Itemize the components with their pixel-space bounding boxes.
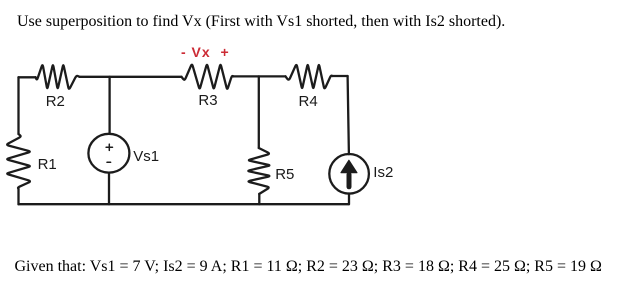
wire left vertical top (17, 77, 19, 134)
wire top segment 1 (19, 76, 36, 78)
given-values text (15, 258, 602, 276)
current source Is2 (329, 154, 369, 194)
node A wire down to Vs1 (108, 77, 110, 133)
label R5 (275, 166, 294, 183)
label Is2 (373, 164, 393, 181)
wire left vertical bottom (17, 189, 19, 204)
wire Vs1 bottom lead (108, 173, 110, 204)
red label - Vx + (181, 44, 230, 60)
label R4 (299, 93, 318, 110)
wire Is2 bottom lead (348, 193, 350, 204)
resistor R2 (36, 65, 80, 88)
Is2 arrow (347, 175, 352, 187)
node B wire down to R5 (258, 76, 260, 148)
label R3 (198, 92, 217, 109)
Vs1 minus sign (107, 161, 111, 163)
title text (17, 13, 505, 31)
resistor R4 (286, 65, 333, 88)
wire top segment 3 (234, 75, 286, 77)
resistor R3 (182, 65, 234, 89)
voltage source Vs1 (88, 134, 129, 173)
label R2 (46, 93, 65, 110)
label R1 (38, 156, 57, 173)
resistor R5 (248, 148, 269, 194)
wire bottom (19, 203, 349, 205)
label Vs1 (133, 148, 159, 165)
resistor R1 (7, 134, 30, 189)
wire top segment 4 (332, 75, 347, 77)
wire R5 bottom lead (258, 194, 260, 204)
wire top segment 2 (80, 76, 182, 78)
wire right vertical to Is2 (348, 76, 349, 154)
Vs1 plus sign (106, 144, 112, 150)
